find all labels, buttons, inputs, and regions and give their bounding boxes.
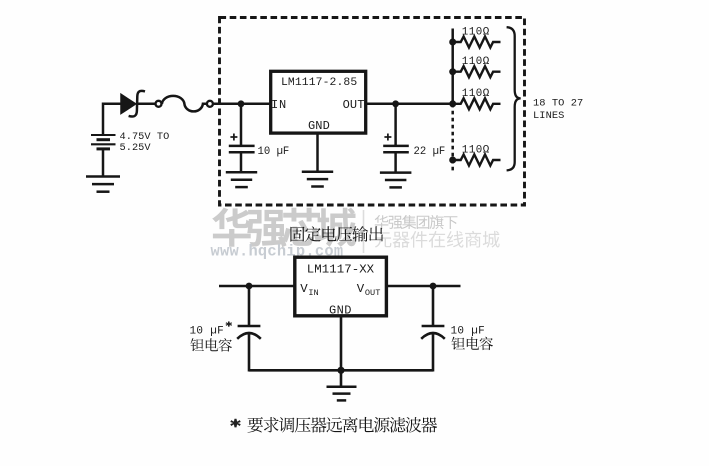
wire diode to connector: [137, 103, 155, 106]
svg-text:LINES: LINES: [533, 110, 564, 122]
ground (C2): [380, 173, 412, 188]
wire input to U2: [219, 285, 295, 288]
svg-text:IN: IN: [271, 98, 287, 112]
capacitor C4 plates: [422, 325, 445, 328]
svg-text:10 µF: 10 µF: [258, 146, 290, 158]
svg-text:4.75V TO: 4.75V TO: [120, 131, 170, 143]
node (output junction): [392, 100, 399, 107]
resistor R1 110 ohm: [453, 37, 501, 48]
wire battery to diode: [103, 104, 122, 135]
svg-text:OUT: OUT: [365, 288, 380, 298]
node (ground junction): [337, 367, 344, 374]
wire U1 GND pin to ground: [316, 133, 319, 172]
C2 lower lead: [394, 152, 397, 172]
resistor R2 110 ohm: [453, 66, 501, 77]
C3 lower lead: [248, 334, 251, 371]
capacitor C3 10uF lead: [248, 286, 251, 326]
C1 plus mark: [230, 134, 237, 141]
wire OUT pin to resistor bus: [365, 103, 453, 106]
svg-text:V: V: [357, 282, 365, 296]
C1 lower lead: [240, 152, 243, 172]
diode D1 (schottky): [121, 94, 136, 113]
svg-text:OUT: OUT: [343, 98, 365, 112]
footnote asterisk: [230, 419, 240, 428]
connector circle (left): [156, 101, 162, 107]
C2 plus mark: [384, 134, 391, 141]
watermark text 华强集团旗下: [375, 215, 458, 229]
brace (18 to 27 lines group): [507, 27, 521, 170]
svg-text:5.25V: 5.25V: [120, 142, 152, 154]
wire connector to IN pin: [213, 103, 270, 106]
svg-text:GND: GND: [308, 119, 330, 133]
wire U2 GND pin: [340, 315, 343, 387]
connector circle (right): [207, 101, 213, 107]
dashed enclosure box: [220, 18, 525, 206]
node (U2 output): [430, 283, 437, 290]
capacitor C3 plates: [238, 325, 261, 328]
IC U1 LM1117-2.85: [271, 71, 366, 133]
IC U2 LM1117-XX: [295, 257, 387, 316]
resistor R4 110 ohm: [453, 155, 501, 166]
svg-text:LM1117-2.85: LM1117-2.85: [281, 77, 357, 89]
capacitor C1 plates: [229, 146, 255, 152]
resistor R3 110 ohm: [453, 98, 501, 109]
ground (U1): [302, 172, 333, 187]
watermark logo text 华强芯城: [212, 208, 356, 248]
resistor bus (solid section): [451, 29, 454, 104]
watermark text 元器件在线商城: [375, 231, 500, 248]
svg-text:V: V: [300, 282, 308, 296]
svg-text:110Ω: 110Ω: [462, 144, 490, 156]
capacitor C2 plates: [383, 146, 409, 152]
watermark divider bar: [363, 210, 365, 253]
label 钽电容 (left): [191, 338, 233, 351]
svg-text:LM1117-XX: LM1117-XX: [307, 262, 375, 276]
node (bus junction 2): [449, 68, 456, 75]
ground (C1): [226, 172, 257, 187]
capacitor C1 10uF lead: [240, 104, 243, 146]
label 钽电容 (right): [452, 337, 494, 350]
ground (battery): [86, 177, 120, 192]
node (U2 input): [246, 283, 253, 290]
heading 固定电压输出 (fixed voltage output): [290, 226, 383, 242]
svg-text:IN: IN: [308, 288, 318, 298]
wire U2 output: [386, 285, 461, 288]
wire battery to ground: [102, 149, 105, 177]
capacitor C4 10uF lead: [432, 286, 435, 326]
svg-text:18 TO 27: 18 TO 27: [533, 98, 583, 110]
svg-text:22 µF: 22 µF: [414, 146, 446, 158]
diode cathode curl: [129, 91, 145, 117]
node (input junction): [238, 100, 245, 107]
svg-text:110Ω: 110Ω: [462, 88, 490, 100]
battery BT1 4.75V-5.25V: [91, 135, 116, 149]
capacitor C2 22uF lead: [394, 104, 397, 146]
node (bus junction 3): [449, 100, 456, 107]
svg-text:10 µF: 10 µF: [190, 325, 225, 337]
bottom rail wire: [249, 369, 433, 372]
node (bus junction 1): [449, 39, 456, 46]
C4 lower lead: [432, 334, 435, 371]
node (bus junction 4): [449, 157, 456, 164]
svg-text:10 µF: 10 µF: [451, 325, 486, 337]
svg-text:110Ω: 110Ω: [462, 26, 490, 38]
svg-text:110Ω: 110Ω: [462, 56, 490, 68]
ferrite bead (wavy link): [162, 96, 207, 112]
resistor bus (dashed section): [451, 104, 454, 172]
footnote 要求调压器远离电源滤波器: [248, 417, 438, 433]
ground (U2): [327, 387, 357, 401]
